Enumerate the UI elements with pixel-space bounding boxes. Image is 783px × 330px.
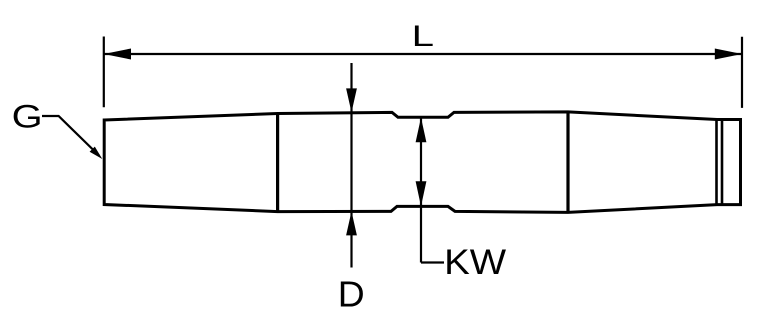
svg-text:G: G: [12, 98, 43, 135]
label D: [338, 274, 365, 314]
stud body outline: [104, 112, 740, 212]
leader G horizontal: [42, 116, 99, 156]
label KW: [444, 243, 506, 282]
svg-text:D: D: [338, 274, 365, 314]
dimension D arrowhead bottom: [346, 211, 357, 235]
dimension L extension line left: [103, 37, 105, 108]
dimension L extension line right: [741, 37, 743, 108]
label L: [412, 19, 434, 53]
svg-text:L: L: [412, 19, 434, 53]
dimension L arrowhead left: [104, 49, 131, 60]
dimension KW arrowhead top: [416, 118, 427, 143]
dimension KW line: [420, 118, 422, 262]
dimension KW arrowhead bottom: [416, 181, 427, 206]
groove line 2 right end: [721, 120, 724, 205]
groove line 1 right end: [715, 120, 718, 205]
dimension D arrowhead top: [346, 88, 357, 112]
section line left shank: [276, 113, 279, 213]
dimension L line: [104, 53, 742, 55]
dimension L arrowhead right: [715, 49, 742, 60]
section line right shank: [566, 111, 569, 213]
leader G arrowhead: [90, 147, 103, 159]
label G: [12, 98, 43, 135]
dimension KW leader horizontal: [421, 261, 444, 263]
svg-text:KW: KW: [444, 243, 506, 282]
dimension D line: [350, 63, 352, 268]
